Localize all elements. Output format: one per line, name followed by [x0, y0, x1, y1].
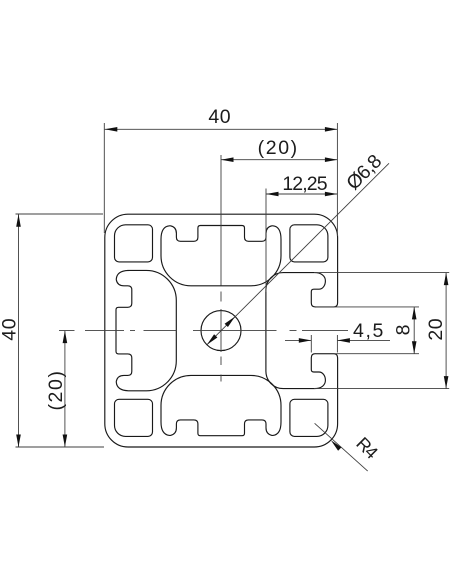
corner bore cavity top-left: [115, 225, 153, 262]
svg-text:Ø6,8: Ø6,8: [342, 151, 386, 195]
corner bore cavity bottom-left: [115, 399, 153, 436]
leader diameter 6,8: [207, 163, 389, 344]
leader R4 corner radius: [315, 423, 368, 471]
profile outer contour with right T-slot opening: [105, 214, 338, 447]
dimension 40 top: [104, 123, 337, 236]
svg-text:(20): (20): [45, 369, 67, 410]
svg-text:(20): (20): [258, 137, 299, 159]
vertical centerline / (20) extension: [220, 155, 222, 382]
dimension 40 left: [16, 214, 105, 447]
dimension 12,25: [266, 189, 337, 293]
center bore circle: [201, 311, 241, 351]
corner bore cavity bottom-right: [290, 399, 328, 436]
dimension (20) top: [221, 159, 337, 161]
svg-text:40: 40: [0, 318, 21, 341]
dimension 8 right: [316, 307, 420, 354]
svg-text:4,5: 4,5: [353, 320, 385, 342]
bottom closed-slot cavity: [161, 375, 281, 435]
svg-text:40: 40: [208, 106, 231, 128]
svg-text:R4: R4: [352, 433, 382, 463]
horizontal centerline: [59, 330, 348, 332]
dimension (20) left: [64, 331, 66, 447]
top closed-slot cavity: [161, 226, 281, 286]
svg-text:8: 8: [393, 324, 415, 335]
corner bore cavity top-right: [290, 225, 328, 262]
svg-text:12,25: 12,25: [282, 173, 327, 195]
dimension 4,5: [285, 335, 390, 353]
svg-text:20: 20: [425, 318, 447, 341]
left closed-slot cavity: [116, 270, 176, 390]
dimension 20 right: [314, 273, 449, 389]
